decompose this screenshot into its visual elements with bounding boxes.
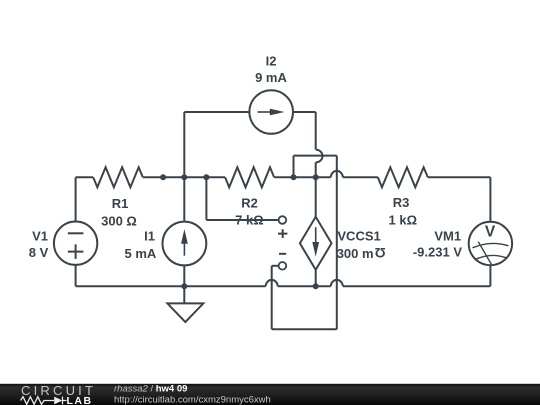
- wire: VM1 branch upper: [489, 177, 491, 222]
- svg-text:rhassa2 / hw4 09: rhassa2 / hw4 09: [114, 384, 187, 395]
- wire: V1 branch lower: [75, 265, 77, 286]
- logo resistor zigzag: [21, 397, 67, 405]
- wire: control loop right vertical: [336, 156, 338, 330]
- wire: ground stub: [183, 286, 185, 303]
- svg-text:R2: R2: [241, 195, 258, 210]
- V1 minus mark: [68, 232, 84, 234]
- VCCS plus control terminal: [279, 216, 287, 224]
- node: junction dot bottom row I1 branch: [181, 283, 187, 289]
- node: junction dot main row I1 branch: [181, 174, 187, 180]
- node: junction dot R1 right: [160, 174, 166, 180]
- wire: control loop left vertical: [271, 266, 273, 330]
- resistor R1: [93, 167, 143, 187]
- wire: main row R1 to R2: [143, 176, 225, 178]
- wire: VCCS plus terminal lead: [206, 219, 278, 221]
- svg-text:LAB: LAB: [67, 395, 93, 405]
- VM1 meter upper arc: [473, 243, 509, 247]
- svg-text:Ω: Ω: [375, 245, 386, 260]
- resistor R3: [378, 167, 428, 187]
- svg-text:I2: I2: [266, 53, 277, 68]
- V1 plus mark: [68, 244, 84, 259]
- I2 arrow: [258, 111, 272, 113]
- wire: V1 branch upper: [75, 177, 77, 221]
- svg-text:5 mA: 5 mA: [125, 246, 157, 261]
- wire: bottom row left: [76, 285, 266, 287]
- svg-text:R1: R1: [112, 196, 129, 211]
- wire: main row V1 to R1: [76, 176, 94, 178]
- I1 arrow: [183, 242, 185, 256]
- svg-text:V: V: [485, 224, 496, 241]
- wire: I2 vertical lower: [315, 162, 317, 177]
- wire: VCCS plus branch vertical: [205, 177, 207, 220]
- current source I2: [249, 90, 293, 134]
- svg-text:VM1: VM1: [434, 228, 461, 243]
- voltage source V1: [54, 222, 97, 265]
- wire: W1 left vertical to main row: [293, 156, 295, 178]
- wire W1: control loop top horizontal: [294, 155, 337, 157]
- svg-text:I1: I1: [144, 228, 155, 243]
- wire: VCCS minus terminal lead: [272, 265, 279, 267]
- svg-text:http://circuitlab.com/cxmz9nmy: http://circuitlab.com/cxmz9nmyc6xwh: [114, 394, 271, 405]
- svg-text:8 V: 8 V: [29, 245, 49, 260]
- wire: I1 branch vertical lower: [183, 265, 185, 286]
- wire: I2 vertical upper: [315, 112, 317, 150]
- svg-text:1 kΩ: 1 kΩ: [389, 212, 418, 227]
- voltmeter VM1: [469, 222, 512, 265]
- logo diode bar: [63, 397, 67, 405]
- wire: bottom row middle: [278, 285, 331, 287]
- logo diode triangle: [54, 397, 62, 405]
- wire: VCCS1 top vertical: [315, 177, 317, 217]
- node: junction dot main row R2 right: [291, 174, 297, 180]
- wire: I1/I2 branch vertical upper: [183, 112, 185, 222]
- current source I1: [163, 222, 207, 266]
- I1 arrowhead: [181, 229, 188, 244]
- svg-text:-9.231 V: -9.231 V: [413, 245, 462, 260]
- wire: VCCS1 bottom vertical: [315, 270, 317, 286]
- node: junction dot main row VCCS branch: [313, 174, 319, 180]
- wire: bottom row right: [343, 285, 491, 287]
- svg-text:300 m: 300 m: [337, 246, 374, 261]
- wire hop: main row over control loop vertical: [331, 171, 343, 177]
- VCCS minus control terminal: [279, 262, 287, 270]
- ground: [167, 303, 203, 322]
- wire: VM1 branch lower: [489, 265, 491, 286]
- resistor R2: [225, 167, 274, 187]
- VCCS1 arrow: [315, 227, 317, 244]
- I2 arrowhead: [270, 109, 285, 116]
- wire: I2 right to corner: [293, 111, 316, 113]
- wire hop: bottom row over control loop right vertical: [331, 280, 343, 286]
- svg-text:7 kΩ: 7 kΩ: [235, 213, 264, 228]
- VCCS1 arrowhead: [312, 242, 319, 257]
- wire: control loop bottom horizontal: [272, 328, 337, 330]
- svg-text:300 Ω: 300 Ω: [101, 214, 137, 229]
- svg-text:V1: V1: [32, 228, 48, 243]
- footer separator line: [0, 383, 540, 384]
- wire: main row hop to R3: [343, 176, 378, 178]
- wire: main row R3 to VM1 corner: [428, 176, 491, 178]
- wire: top wire corner to I2: [184, 111, 249, 113]
- VCCS1 dependent source diamond: [300, 217, 332, 270]
- VCCS plus control mark: [278, 229, 287, 238]
- svg-text:VCCS1: VCCS1: [337, 229, 380, 244]
- node: junction dot main row plus branch: [203, 174, 209, 180]
- VM1 needle: [478, 242, 491, 265]
- VM1 meter lower arc: [475, 255, 507, 259]
- node: junction dot bottom row VCCS branch: [313, 283, 319, 289]
- wire hop: I2 vertical over control wire W1: [316, 150, 323, 163]
- wire: main row R2 to hop: [274, 176, 331, 178]
- svg-text:9 mA: 9 mA: [255, 70, 287, 85]
- VCCS minus control mark: [279, 253, 286, 255]
- svg-text:R3: R3: [393, 195, 410, 210]
- wire hop: bottom row over control loop left vertical: [266, 280, 278, 286]
